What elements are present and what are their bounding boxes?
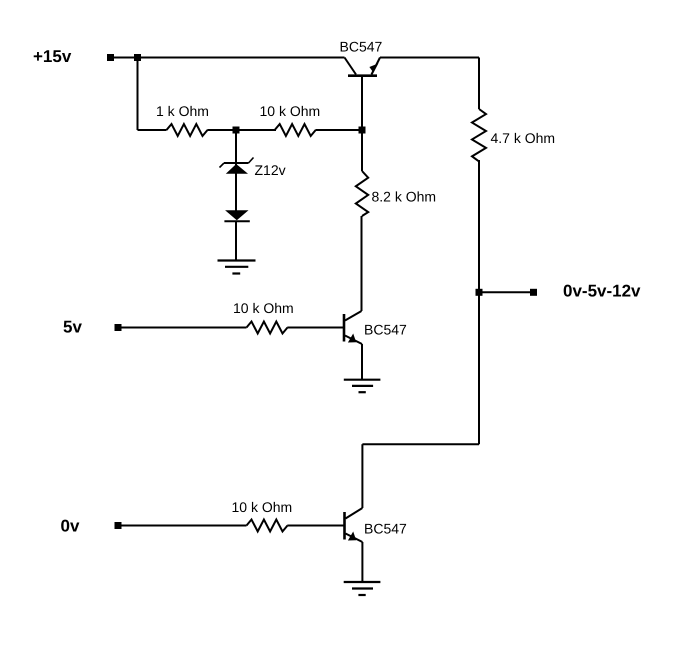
wire zener node to R2 [236, 129, 276, 131]
transistor Q1 base bar [348, 74, 377, 77]
resistor R1 1 k Ohm [167, 124, 208, 136]
wire diode to ground [235, 221, 237, 261]
ground G1 bar3 [232, 272, 240, 274]
wire R2 to base node [316, 129, 363, 131]
svg-text:10 k Ohm: 10 k Ohm [260, 103, 321, 119]
wire 5v to R4 [118, 327, 247, 329]
ground G3 bar3 [358, 594, 365, 596]
svg-text:5v: 5v [63, 318, 82, 337]
zener Z1 right wing [249, 158, 254, 164]
svg-text:BC547: BC547 [364, 322, 407, 338]
wire R4 to Q2 base [287, 327, 344, 329]
ground G3 bar2 [352, 587, 373, 589]
node terminal 5v [115, 324, 122, 331]
svg-text:BC547: BC547 [340, 39, 383, 55]
wire output stub [479, 291, 533, 293]
svg-text:Z12v: Z12v [255, 162, 286, 178]
resistor R4 10 k Ohm [247, 322, 288, 334]
wire R5 to output node [478, 160, 480, 292]
zener Z1 triangle [226, 164, 248, 174]
resistor R2 10 k Ohm [275, 124, 316, 136]
node base junction Q1 [359, 127, 366, 134]
transistor Q2 emitter diagonal [345, 336, 362, 345]
wire horizontal to Q3 collector [362, 443, 479, 445]
transistor Q3 collector diagonal [346, 508, 363, 519]
transistor Q1 emitter diagonal [345, 58, 357, 75]
resistor R3 8.2 k Ohm [356, 171, 368, 216]
transistor Q2 base bar [343, 314, 346, 342]
wire Q1 base drop [361, 77, 363, 172]
diode D1 cathode bar [224, 220, 249, 222]
svg-text:+15v: +15v [33, 47, 72, 66]
resistor R5 4.7 k Ohm [472, 109, 486, 161]
wire vertical drop from +15v rail [137, 58, 139, 131]
wire Q2 emitter to ground [361, 344, 363, 380]
wire Q3 emitter to ground [361, 542, 363, 582]
diode D1 triangle [225, 210, 248, 220]
svg-text:10 k Ohm: 10 k Ohm [233, 300, 294, 316]
ground G1 bar1 [218, 259, 256, 261]
svg-text:8.2 k Ohm: 8.2 k Ohm [372, 189, 437, 205]
transistor Q3 emitter diagonal [346, 534, 363, 543]
node output terminal [530, 289, 537, 296]
transistor Q3 base bar [343, 512, 346, 540]
wire Q1 emitter to right rail [380, 57, 479, 59]
node terminal 0v [115, 522, 122, 529]
transistor Q1 arrow [369, 63, 378, 72]
ground G1 bar2 [225, 266, 248, 268]
transistor Q1 collector diagonal [372, 58, 381, 75]
svg-text:10 k Ohm: 10 k Ohm [232, 499, 293, 515]
ground G2 bar3 [359, 391, 366, 393]
node zener top [233, 127, 240, 134]
ground G2 bar1 [344, 379, 381, 381]
wire +15v rail top [110, 57, 345, 59]
svg-text:4.7 k Ohm: 4.7 k Ohm [491, 130, 556, 146]
wire to resistor R1 [138, 129, 167, 131]
node terminal +15v [107, 54, 114, 61]
svg-text:0v: 0v [61, 517, 80, 536]
zener Z1 cathode bar [224, 162, 249, 164]
svg-text:1 k Ohm: 1 k Ohm [156, 103, 209, 119]
svg-text:BC547: BC547 [364, 521, 407, 537]
transistor Q2 arrow [348, 334, 356, 343]
svg-text:0v-5v-12v: 0v-5v-12v [563, 282, 641, 301]
transistor Q3 arrow [348, 532, 356, 541]
wire Q3 collector drop [361, 444, 363, 508]
wire R1 to zener node [207, 129, 236, 131]
wire R3 to Q2 collector [361, 216, 363, 311]
transistor Q2 collector diagonal [345, 311, 362, 321]
node junction top-left [134, 54, 141, 61]
wire right rail down to R5 [478, 58, 480, 110]
zener Z1 left wing [220, 163, 225, 168]
wire right rail below output node [478, 292, 480, 444]
wire R6 to Q3 base [287, 525, 344, 527]
wire zener to diode [235, 130, 237, 211]
ground G3 bar1 [344, 581, 381, 583]
resistor R6 10 k Ohm [247, 520, 288, 532]
node output junction [476, 289, 483, 296]
ground G2 bar2 [352, 385, 373, 387]
wire 0v to R6 [118, 525, 247, 527]
